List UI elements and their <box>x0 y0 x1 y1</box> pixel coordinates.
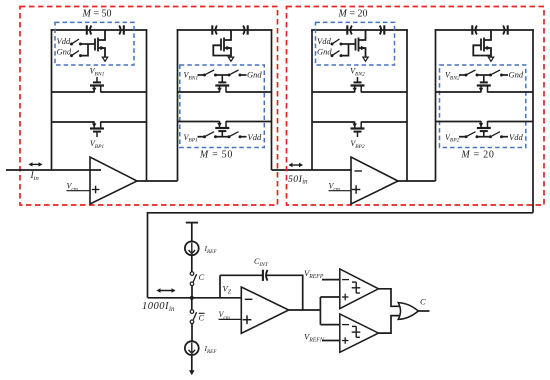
minus sign inside U2 <box>355 170 363 172</box>
wire: gate loop of M2 <box>213 45 231 55</box>
wire: right block branch2 left vertical <box>435 29 437 181</box>
wire: 50Iin from left block to right block <box>272 169 352 171</box>
wire: gate loop of M4 <box>473 45 491 55</box>
svg-text:M = 20: M = 20 <box>338 9 368 20</box>
hysteresis symbol U4 <box>352 281 356 283</box>
label 50Iin with arrow <box>290 164 303 166</box>
minus sign inside U3 <box>245 298 253 300</box>
switch: VBN1 to gate <box>203 74 206 77</box>
switch: VBP2 to gate (right) <box>465 135 468 138</box>
wire: right-branch1 VBN2 row <box>312 91 355 93</box>
switch: VBP1 to gate <box>203 135 206 138</box>
dashed boundary box: left transimpedance block <box>20 7 278 206</box>
switch: gate to Vdd (right) <box>489 135 492 138</box>
blue dashed box: right-branch1 switch/cap cell <box>316 22 395 65</box>
wire: gate connections <box>81 43 96 45</box>
svg-text:C: C <box>199 313 205 323</box>
label 1000Iin with arrow <box>158 290 175 292</box>
hysteresis symbol U5 <box>352 325 356 327</box>
switch: gate to Gnd <box>228 74 231 77</box>
plus sign inside U4 <box>342 296 349 298</box>
wire: 1000Iin from right block output down to integrator <box>148 213 534 298</box>
wire: branch2 VBN1 row <box>178 91 220 93</box>
transistor M3 (vertical, right-branch1 top) <box>355 39 357 51</box>
wire: VBP2 switch row <box>459 136 466 138</box>
wire: VREFN to comparator <box>322 340 340 342</box>
capacitors on branch2 top wire <box>177 29 273 31</box>
integration capacitor CINT <box>220 274 262 276</box>
minus sign inside U4 <box>342 279 349 281</box>
transistor VBN2-controlled NMOS (right-branch2) <box>483 75 485 82</box>
svg-text:Gnd: Gnd <box>317 47 332 57</box>
svg-text:Gnd: Gnd <box>57 47 72 57</box>
svg-text:Vdd: Vdd <box>317 36 331 46</box>
switch: VBN2 to gate (right) <box>465 74 468 77</box>
current source IREF (bottom) <box>185 341 199 355</box>
op-amp U1 (left transimpedance amplifier) <box>90 157 137 204</box>
transistor M1 (vertical, branch1 top) <box>94 39 96 51</box>
supply rail bar above IREF <box>186 222 198 224</box>
wire: switch row to gate of VBN1 NMOS <box>198 74 205 76</box>
svg-text:C: C <box>420 297 426 307</box>
junction node (1000Iin summing) <box>190 296 194 300</box>
svg-text:Vdd: Vdd <box>248 132 262 142</box>
OR gate <box>398 303 418 320</box>
transistor VBN1-controlled NMOS (branch2) <box>221 75 223 82</box>
switch: Gnd to gate <box>70 54 73 57</box>
svg-text:Gnd: Gnd <box>247 70 262 80</box>
switch C <box>190 272 194 276</box>
op-amp U2 (right transimpedance amplifier) <box>351 157 398 204</box>
minus sign inside U5 <box>342 324 349 326</box>
comparator U4 (upper) <box>340 269 379 309</box>
transistor M4 (diode-connected, right-branch2 top) <box>480 39 482 51</box>
wire: VREFP to comparator <box>322 279 340 281</box>
wire: CINT to integrator output <box>267 275 303 310</box>
wire: Iin input into inverting input <box>6 169 101 171</box>
wire: tee to comparator inputs <box>319 297 321 325</box>
wire: right-branch2 VBN2 row <box>436 91 482 93</box>
switch Cbar <box>191 298 193 310</box>
wire: branch1 VBN1 row <box>52 91 95 93</box>
wire: U1 output to branch2 <box>137 180 178 182</box>
wire: gate connections (right block) <box>341 43 356 45</box>
wire: U2 output to right-branch2 <box>398 180 436 182</box>
svg-text:Vdd: Vdd <box>57 36 71 46</box>
dashed boundary box: right transimpedance block <box>287 7 545 206</box>
wire: IREF to switch C <box>191 255 193 272</box>
transistor VBP1-controlled PMOS (branch2) <box>215 127 229 129</box>
svg-text:C: C <box>199 272 205 282</box>
svg-text:M = 50: M = 50 <box>199 150 233 161</box>
wire: branch1 right vertical <box>146 29 148 181</box>
transistor VBP1 (cascode PMOS, branch1) <box>90 127 104 129</box>
wire: switch Cbar to IREF bottom <box>191 324 193 342</box>
wire: right-branch1 VBP2 row <box>312 121 355 123</box>
label Iin with current direction arrow <box>30 163 42 165</box>
switch: Vdd to gate (right block) <box>331 43 334 46</box>
wire: OR gate output C <box>418 310 429 312</box>
wire: branch1 left vertical <box>51 29 53 170</box>
transistor M2 (diode-connected, branch2 top) <box>220 39 222 51</box>
wire: right block branch1 left vertical <box>311 29 313 170</box>
wire: branch2 VBP1 row <box>178 121 220 123</box>
transistor VBP2 (cascode PMOS, right-branch1) <box>351 127 365 129</box>
svg-text:Gnd: Gnd <box>509 70 524 80</box>
wire: U4 output to OR gate <box>379 289 400 307</box>
svg-text:M = 50: M = 50 <box>82 9 112 20</box>
capacitors on right-branch2 top wire <box>435 29 534 31</box>
plus sign inside U3 <box>243 319 252 321</box>
wire: right block branch1 right vertical <box>406 29 408 181</box>
wire: branch2 left vertical <box>177 29 179 181</box>
wire: branch2 right vertical <box>271 29 273 170</box>
switch: gate to Gnd (right) <box>489 74 492 77</box>
blue dashed box: right-branch2 programming cell <box>440 65 526 148</box>
blue dashed box: branch1 switch/cap cell <box>55 22 134 65</box>
capacitor C (left) and C (right) on branch1 top wire <box>51 29 148 31</box>
switch: Vdd to gate <box>70 43 73 46</box>
current source IREF (top) <box>185 241 199 255</box>
wire: right-branch2 VBP2 row <box>436 121 482 123</box>
svg-text:Vdd: Vdd <box>509 132 523 142</box>
transistor VBP2-controlled PMOS (right-branch2) <box>477 127 491 129</box>
comparator U5 (lower) <box>340 314 379 352</box>
switch: Gnd to gate (right block) <box>331 54 334 57</box>
wire: switch C to summing node <box>191 286 193 298</box>
plus sign inside U2 <box>352 189 360 191</box>
wire: IREF bottom to ground arrow <box>191 355 193 372</box>
node VZ <box>219 275 221 298</box>
wire: switch row (right-branch2 top) <box>459 74 466 76</box>
op-amp U3 (integrator) <box>241 287 288 333</box>
svg-text:M = 20: M = 20 <box>460 150 494 161</box>
wire: right block branch2 right vertical (output) <box>532 29 534 213</box>
blue dashed box: branch2 programming cell <box>180 65 264 148</box>
capacitors on right-branch1 top wire <box>311 29 408 31</box>
plus sign inside U5 <box>342 340 349 342</box>
plus sign inside U1 <box>92 189 100 191</box>
wire: integrator output <box>289 309 321 311</box>
switch: gate to Vdd <box>228 135 231 138</box>
wire: U5 output to OR gate <box>379 316 400 334</box>
wire: VBP1 switch row <box>198 136 205 138</box>
wire: branch1 VBP1 row <box>52 121 95 123</box>
